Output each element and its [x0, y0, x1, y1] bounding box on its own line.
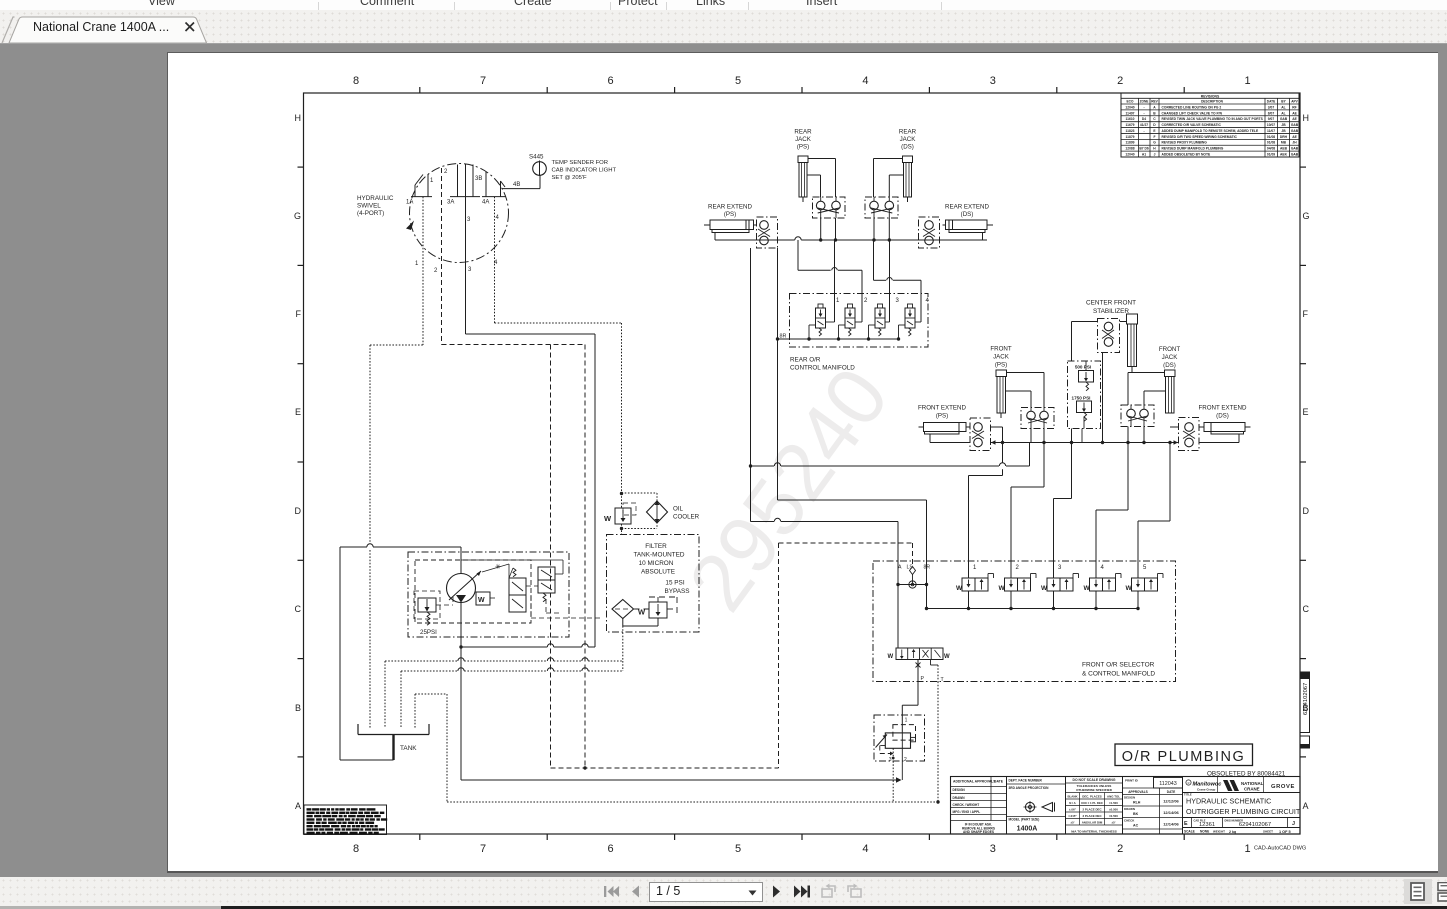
- wire rear PS to selector A: [750, 248, 752, 522]
- front extend DS cylinder: [1204, 423, 1211, 432]
- rear jack DS piping: [874, 158, 903, 160]
- svg-text:295240: 295240: [672, 352, 906, 627]
- svg-text:GAB: GAB: [1291, 129, 1299, 133]
- tab bar: [0, 10, 1447, 44]
- svg-text:TEMP SENDER FOR: TEMP SENDER FOR: [552, 160, 609, 166]
- svg-text:8: 8: [353, 75, 359, 87]
- shuttle symbol: [898, 584, 927, 586]
- svg-text:F: F: [296, 309, 302, 319]
- title block outer: [951, 777, 1301, 835]
- LS orifice diamond: [910, 567, 916, 575]
- revision table: [1121, 93, 1299, 157]
- stabilizer piping: [1120, 321, 1127, 323]
- svg-text:12040: 12040: [1125, 105, 1134, 109]
- svg-text:F: F: [1153, 135, 1155, 139]
- svg-text:C: C: [1303, 604, 1310, 614]
- status bar: [0, 877, 1447, 909]
- svg-text:R: R: [1188, 781, 1190, 785]
- directional valve V2: [538, 567, 555, 593]
- pump case drain line: [460, 603, 462, 648]
- Manitowoc logo: [1186, 780, 1191, 785]
- svg-text:P: P: [921, 676, 925, 682]
- drawing frame border: [304, 93, 1301, 834]
- counterbalance valve rear jack PS: [813, 197, 846, 218]
- svg-text:MODEL (PART SIZE): MODEL (PART SIZE): [1009, 818, 1040, 822]
- svg-text:12/12/06: 12/12/06: [1163, 799, 1179, 804]
- dotted return run y660: [385, 660, 458, 662]
- filter bypass relief: [649, 602, 667, 618]
- approvals section: [990, 777, 992, 821]
- front extend PS cylinder: [924, 423, 960, 432]
- svg-text:-: -: [1143, 129, 1144, 133]
- front extend PS cap line: [966, 426, 970, 428]
- front manifold enclosure: [873, 561, 1176, 682]
- bottom window edge: [0, 906, 221, 909]
- svg-text:ADDED OBSOLETED BY NOTE: ADDED OBSOLETED BY NOTE: [1162, 153, 1211, 157]
- svg-text:5: 5: [735, 843, 741, 855]
- svg-text:C: C: [1153, 117, 1156, 121]
- svg-text:±0.500: ±0.500: [1109, 808, 1118, 812]
- svg-text:W: W: [478, 597, 485, 604]
- oil cooler diamond: [647, 501, 668, 523]
- solenoid valve rear 4: [908, 304, 913, 308]
- svg-text:2 PLACE DEC: 2 PLACE DEC: [1082, 808, 1102, 812]
- svg-text:W: W: [888, 654, 894, 660]
- stair wire 1: [1002, 427, 1004, 463]
- svg-text:NONE: NONE: [1200, 830, 1209, 834]
- oil cooler relief valve: [615, 508, 631, 524]
- svg-text:JB: JB: [1281, 123, 1286, 127]
- svg-text:JACK: JACK: [795, 136, 812, 143]
- svg-text:2: 2: [1117, 843, 1123, 855]
- svg-text:F: F: [1303, 309, 1309, 319]
- temp sender S445: [533, 162, 547, 176]
- svg-text:10/07: 10/07: [1267, 123, 1275, 127]
- counterbalance valve front extend PS: [970, 418, 991, 451]
- front extend DS rod-side line: [1238, 434, 1240, 443]
- general notes block (dense text): [304, 805, 387, 835]
- svg-text:7: 7: [480, 75, 486, 87]
- swivel port 1: [427, 174, 429, 197]
- drawing number row: [1191, 818, 1193, 828]
- approvals and dates section: [1153, 777, 1155, 789]
- relief block connections: [1085, 361, 1087, 371]
- dotted return run y670: [401, 670, 458, 672]
- svg-text:D: D: [1303, 506, 1310, 516]
- rear jack PS piping: [808, 158, 836, 160]
- svg-text:(PS): (PS): [724, 211, 736, 218]
- svg-text:01/08: 01/08: [1267, 135, 1275, 139]
- svg-text:G: G: [1153, 141, 1156, 145]
- partial second icon at edge: [1437, 882, 1447, 902]
- solenoid valve rear 3: [878, 304, 883, 308]
- single page layout icon (selected): [1404, 879, 1432, 904]
- svg-text:OTHERWISE SPECIFIED: OTHERWISE SPECIFIED: [1076, 788, 1113, 792]
- stair wire 4: [1096, 509, 1128, 511]
- svg-text:ADDITIONAL APPROVALS: ADDITIONAL APPROVALS: [953, 780, 996, 784]
- svg-text:1400A: 1400A: [1017, 826, 1038, 833]
- svg-text:DO NOT SCALE DRAWING: DO NOT SCALE DRAWING: [1073, 778, 1116, 782]
- svg-text:3/07: 3/07: [1268, 105, 1275, 109]
- svg-text:12/14/06: 12/14/06: [1163, 810, 1179, 815]
- svg-text:6: 6: [607, 843, 613, 855]
- svg-text:CAD-AutoCAD DWG: CAD-AutoCAD DWG: [1254, 846, 1306, 852]
- counterbalance valve front extend DS: [1179, 418, 1200, 451]
- front jack DS cylinder: [1165, 370, 1176, 377]
- svg-text:B: B: [295, 703, 301, 713]
- svg-text:CHANGED LIFT CHECK VALVE TO P/: CHANGED LIFT CHECK VALVE TO P/N: [1162, 111, 1223, 115]
- svg-text:6: 6: [607, 75, 613, 87]
- svg-text:12088: 12088: [1125, 147, 1134, 151]
- svg-text:2: 2: [434, 268, 438, 274]
- next view (disabled): [845, 883, 863, 900]
- pump circle P1: [447, 574, 476, 603]
- arrow into FE-PS block: [991, 440, 996, 444]
- svg-text:REAR EXTEND: REAR EXTEND: [945, 204, 990, 211]
- svg-text:JACK: JACK: [900, 136, 917, 143]
- svg-text:N/A TO MATERIAL THICKNESS: N/A TO MATERIAL THICKNESS: [1071, 830, 1117, 834]
- 8R riser down: [777, 248, 779, 500]
- svg-text:CENTER FRONT: CENTER FRONT: [1086, 300, 1136, 307]
- logo strip: [1183, 792, 1301, 794]
- O/R PLUMBING box: [1115, 744, 1253, 766]
- svg-text:4: 4: [496, 215, 500, 221]
- svg-text:(DS): (DS): [961, 211, 974, 218]
- svg-text:8R: 8R: [924, 565, 931, 571]
- svg-text:MFG / ENG / APPL: MFG / ENG / APPL: [953, 810, 981, 814]
- svg-text:BLANK: BLANK: [1067, 795, 1078, 799]
- svg-text:CONTROL MANIFOLD: CONTROL MANIFOLD: [790, 365, 855, 372]
- svg-text:G: G: [294, 211, 301, 221]
- svg-text:±.06": ±.06": [1069, 808, 1077, 812]
- previous view (disabled): [820, 883, 838, 900]
- svg-text:(PS): (PS): [797, 144, 809, 151]
- svg-text:BY: BY: [1281, 100, 1286, 104]
- svg-text:NATIONAL: NATIONAL: [1241, 781, 1264, 786]
- svg-text:8R: 8R: [780, 334, 787, 340]
- stair wire 5: [1169, 443, 1171, 522]
- svg-text:ANG TOL: ANG TOL: [1107, 795, 1120, 799]
- rear extend DS cylinder: [949, 220, 987, 230]
- svg-text:1: 1: [415, 261, 419, 267]
- front main bus y441.5: [1003, 442, 1179, 444]
- svg-text:WEIGHT: WEIGHT: [1213, 830, 1225, 834]
- selector valve: [896, 648, 943, 660]
- svg-text:AE: AE: [1292, 111, 1297, 115]
- svg-text:STABILIZER: STABILIZER: [1093, 308, 1129, 315]
- svg-text:CAB INDICATOR LIGHT: CAB INDICATOR LIGHT: [552, 168, 617, 174]
- svg-text:CRANE: CRANE: [1244, 787, 1260, 792]
- svg-text:COOLER: COOLER: [673, 514, 700, 521]
- svg-text:3: 3: [896, 298, 900, 304]
- svg-text:AC: AC: [1133, 824, 1139, 828]
- svg-text:H: H: [295, 113, 302, 123]
- svg-text:HYDRAULIC SCHEMATIC: HYDRAULIC SCHEMATIC: [1186, 797, 1271, 806]
- svg-text:B7 D6: B7 D6: [1139, 147, 1149, 151]
- svg-text:3 PLACE DEC: 3 PLACE DEC: [1082, 814, 1102, 818]
- svg-text:11899: 11899: [1126, 141, 1135, 145]
- svg-text:1: 1: [836, 298, 840, 304]
- svg-text:A: A: [1153, 105, 1156, 109]
- svg-text:6294102067: 6294102067: [1303, 683, 1309, 715]
- svg-text:2: 2: [444, 169, 448, 175]
- National Crane logo: [1223, 780, 1233, 791]
- stair wire 3: [1054, 498, 1072, 500]
- svg-text:ADDED DUMP MANIFOLD TO REMOTE: ADDED DUMP MANIFOLD TO REMOTE SCHEM, ADD…: [1162, 129, 1259, 133]
- third angle projection symbol: [1025, 802, 1034, 811]
- swivel port 4: [485, 172, 487, 197]
- wire: dashed pilot risers: [550, 345, 552, 769]
- svg-text:3: 3: [468, 267, 472, 273]
- svg-text:3RD ANGLE PROJECTION: 3RD ANGLE PROJECTION: [1009, 786, 1050, 790]
- svg-text:01/08: 01/08: [1267, 141, 1275, 145]
- svg-text:DATE: DATE: [994, 780, 1004, 784]
- rear O/R control manifold enclosure: [790, 294, 929, 348]
- svg-text:Crane Group: Crane Group: [1197, 788, 1216, 792]
- svg-text:GAB: GAB: [1291, 153, 1299, 157]
- svg-text:2: 2: [1016, 565, 1020, 571]
- svg-text:REAR: REAR: [794, 129, 812, 136]
- svg-text:TANK-MOUNTED: TANK-MOUNTED: [633, 552, 684, 559]
- front extend PS rod-side line: [929, 434, 931, 443]
- svg-text:(PS): (PS): [995, 362, 1007, 369]
- svg-text:AL: AL: [1281, 111, 1285, 115]
- svg-text:JACK: JACK: [993, 354, 1010, 361]
- svg-text:4: 4: [862, 75, 868, 87]
- white page: [167, 52, 1438, 871]
- front manifold bus: [927, 608, 1139, 610]
- svg-text:GAB: GAB: [1291, 147, 1299, 151]
- filter internal dashed: [634, 608, 650, 610]
- svg-text:11/07: 11/07: [1267, 129, 1275, 133]
- svg-text:(DS): (DS): [901, 144, 914, 151]
- svg-text:D: D: [1153, 123, 1156, 127]
- A line down to selector: [897, 585, 899, 649]
- wire: port1 dotted to tank: [422, 197, 424, 345]
- svg-text:& CONTROL MANIFOLD: & CONTROL MANIFOLD: [1082, 671, 1155, 678]
- svg-text:D4: D4: [1142, 117, 1146, 121]
- svg-text:DESIGN: DESIGN: [953, 788, 966, 792]
- stabilizer cylinder: [1127, 314, 1138, 324]
- main pressure long line y779: [460, 647, 462, 780]
- svg-text:XXX ± 1 PL DEC: XXX ± 1 PL DEC: [1081, 801, 1104, 805]
- svg-text:AL: AL: [1281, 105, 1285, 109]
- svg-text:2: 2: [1117, 75, 1123, 87]
- page box: [649, 882, 763, 902]
- sidebar part number box: [1300, 672, 1310, 733]
- svg-text:FRONT: FRONT: [990, 346, 1012, 353]
- wire: dashed pilot bottom run: [551, 767, 779, 769]
- svg-text:OIL: OIL: [673, 506, 684, 513]
- svg-text:3: 3: [1058, 565, 1062, 571]
- svg-text:±5': ±5': [1112, 821, 1116, 825]
- svg-text:(DS): (DS): [1163, 362, 1176, 369]
- svg-text:FRONT EXTEND: FRONT EXTEND: [918, 405, 967, 412]
- svg-text:SCALE: SCALE: [1184, 830, 1195, 834]
- rear manifold feed lines: [797, 240, 799, 270]
- svg-text:H: H: [1303, 113, 1310, 123]
- svg-text:500 PSI: 500 PSI: [1075, 365, 1091, 370]
- svg-text:AE: AE: [1292, 135, 1297, 139]
- svg-text:12/14/06: 12/14/06: [1163, 822, 1179, 827]
- stabilizer valve block: [1098, 319, 1120, 353]
- svg-text:RF: RF: [1292, 105, 1296, 109]
- svg-text:HYDRAULIC: HYDRAULIC: [357, 195, 394, 202]
- svg-text:CORRECTED LINE ROUTING ON PG 2: CORRECTED LINE ROUTING ON PG 2: [1162, 105, 1222, 109]
- counterbalance valve rear extend DS: [919, 217, 940, 248]
- svg-text:JH: JH: [1292, 141, 1297, 145]
- svg-text:H: H: [1153, 147, 1156, 151]
- svg-text:SWIVEL: SWIVEL: [357, 203, 381, 210]
- arrow into FE-DS block: [1174, 440, 1179, 444]
- svg-text:4A: 4A: [482, 200, 489, 206]
- FJ-DS drops: [1127, 427, 1129, 511]
- svg-text:1: 1: [1245, 843, 1251, 855]
- svg-text:DATE: DATE: [1267, 100, 1275, 104]
- svg-text:9/07: 9/07: [1268, 117, 1275, 121]
- svg-text:DATE: DATE: [1167, 790, 1175, 794]
- rear extend DS rod line: [982, 233, 984, 241]
- svg-text:11823: 11823: [1126, 129, 1135, 133]
- svg-text:1: 1: [905, 718, 908, 724]
- svg-text:1: 1: [973, 565, 977, 571]
- svg-text:W: W: [604, 514, 612, 523]
- svg-text:APPROVALS: APPROVALS: [1128, 790, 1148, 794]
- svg-text:FILTER: FILTER: [645, 543, 667, 550]
- svg-text:G: G: [1303, 211, 1310, 221]
- svg-text:JB: JB: [1281, 129, 1286, 133]
- svg-text:BYPASS: BYPASS: [664, 588, 689, 595]
- svg-text:REVISED DUMP MANIFOLD PLUMBING: REVISED DUMP MANIFOLD PLUMBING: [1162, 147, 1224, 151]
- directional valve V1: [509, 578, 526, 612]
- svg-text:AEK: AEK: [1280, 153, 1288, 157]
- svg-text:12040: 12040: [1125, 153, 1134, 157]
- svg-text:(DS): (DS): [1216, 413, 1229, 420]
- pump internal pilot dashes: [482, 564, 509, 572]
- wire: port3 solid: [465, 164, 467, 334]
- filter element diamond: [612, 600, 634, 619]
- svg-text:ABSOLUTE: ABSOLUTE: [641, 569, 675, 576]
- svg-text:4: 4: [862, 843, 868, 855]
- svg-text:TANK: TANK: [400, 745, 417, 752]
- svg-text:2: 2: [864, 298, 868, 304]
- svg-text:FRONT: FRONT: [1159, 346, 1181, 353]
- svg-text:O/R PLUMBING: O/R PLUMBING: [1122, 749, 1246, 765]
- svg-text:5: 5: [735, 75, 741, 87]
- svg-text:CHECK / WEIGHT: CHECK / WEIGHT: [953, 803, 980, 807]
- pump inner dashed box: [415, 560, 531, 623]
- svg-text:11679: 11679: [1126, 123, 1135, 127]
- counterbalance valve rear extend PS: [757, 217, 778, 248]
- svg-text:S445: S445: [529, 154, 544, 161]
- tank symbol: [357, 724, 359, 735]
- svg-text:W: W: [944, 654, 950, 660]
- svg-text:-: -: [1143, 105, 1144, 109]
- svg-text:04/08: 04/08: [1267, 147, 1275, 151]
- menu toolbar: [0, 0, 1447, 11]
- svg-text:J: J: [1292, 821, 1295, 827]
- svg-text:FRONT EXTEND: FRONT EXTEND: [1198, 405, 1247, 412]
- svg-text:PRINT ID: PRINT ID: [1125, 779, 1139, 783]
- svg-text:8/07: 8/07: [1268, 111, 1275, 115]
- svg-text:REAR O/R: REAR O/R: [790, 357, 821, 364]
- svg-text:AND SHARP EDGES: AND SHARP EDGES: [963, 830, 994, 834]
- rear bus line: [715, 239, 795, 241]
- svg-text:BK: BK: [1133, 812, 1139, 816]
- svg-text:4: 4: [1101, 565, 1105, 571]
- title block verticals: [1006, 777, 1008, 835]
- svg-text:REVISED O/R TWO SPEED WIRING S: REVISED O/R TWO SPEED WIRING SCHEMATIC: [1162, 135, 1238, 139]
- svg-text:A: A: [1303, 801, 1309, 811]
- svg-text:REVISED TWIN JACK VALVE PLUMBI: REVISED TWIN JACK VALVE PLUMBING TO IN A…: [1162, 117, 1264, 121]
- suction line to tank: [340, 546, 367, 548]
- svg-text:E: E: [1184, 821, 1188, 827]
- svg-text:DESCRIPTION: DESCRIPTION: [1201, 100, 1223, 104]
- svg-text:D: D: [295, 506, 302, 516]
- P T ports: [917, 660, 919, 682]
- svg-text:DESIGN: DESIGN: [1124, 796, 1135, 800]
- svg-text:11610: 11610: [1126, 117, 1135, 121]
- swivel rotation arrow: [406, 221, 414, 231]
- svg-text:CORRECTED O/R VALVE SCHEMATIC: CORRECTED O/R VALVE SCHEMATIC: [1162, 123, 1222, 127]
- flow divider enclosure: [874, 715, 925, 761]
- svg-text:3A: 3A: [447, 200, 454, 206]
- svg-text:AE: AE: [1292, 117, 1297, 121]
- svg-text:11497: 11497: [1126, 111, 1135, 115]
- svg-text:MB: MB: [1281, 141, 1287, 145]
- svg-text:4: 4: [926, 298, 930, 304]
- wire: port2 dashed pilot: [441, 168, 443, 345]
- front jack DS piping: [1128, 372, 1165, 374]
- first page (disabled): [603, 883, 620, 900]
- svg-text:N / A: N / A: [1069, 801, 1076, 805]
- svg-text:8: 8: [353, 843, 359, 855]
- last page: [792, 883, 811, 900]
- svg-text:10 MICRON: 10 MICRON: [639, 560, 674, 567]
- relief block enclosure: [1068, 361, 1101, 429]
- stair wire 2: [1043, 443, 1045, 488]
- svg-text:APV: APV: [1291, 100, 1298, 104]
- svg-text:T: T: [941, 677, 945, 683]
- svg-text:1750 PSI: 1750 PSI: [1072, 396, 1091, 401]
- wire 8R to manifold BR: [778, 499, 927, 501]
- svg-text:41/27: 41/27: [1140, 123, 1148, 127]
- svg-text:DEC. PLACES: DEC. PLACES: [1082, 795, 1102, 799]
- relief pilot dash lines: [436, 604, 453, 606]
- svg-text:3: 3: [467, 217, 471, 223]
- svg-text:REV: REV: [1151, 100, 1158, 104]
- front extend DS cap line: [1199, 426, 1204, 428]
- swivel port 3: [457, 165, 459, 197]
- solenoid valve rear 2: [848, 304, 853, 308]
- svg-text:E: E: [1153, 129, 1156, 133]
- svg-text:DRH: DRH: [1280, 135, 1288, 139]
- svg-text:REAR EXTEND: REAR EXTEND: [708, 204, 753, 211]
- X symbol below selector: [916, 663, 921, 668]
- wire: solid return with bumps: [461, 646, 547, 648]
- prev page (disabled): [628, 883, 642, 900]
- svg-text:3: 3: [990, 843, 996, 855]
- svg-text:GROVE: GROVE: [1271, 784, 1295, 790]
- svg-text:±1.500: ±1.500: [1109, 801, 1118, 805]
- svg-text:C: C: [295, 604, 302, 614]
- svg-text:E: E: [1303, 407, 1309, 417]
- svg-text:ZONE: ZONE: [1140, 100, 1149, 104]
- front jack PS cylinder: [996, 370, 1007, 377]
- svg-text:1A: 1A: [406, 200, 413, 206]
- svg-text:-: -: [1143, 111, 1144, 115]
- svg-text:A1: A1: [1142, 153, 1146, 157]
